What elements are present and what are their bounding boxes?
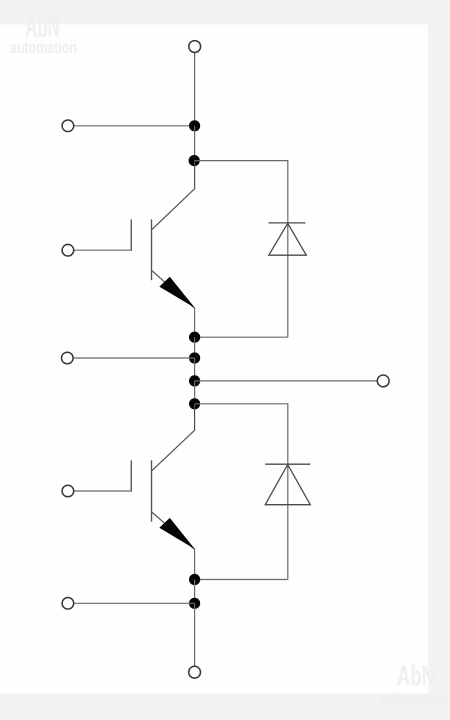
transistor Q1 body bar [151, 219, 153, 280]
wire: left terminal 3 to node M2 [73, 357, 195, 359]
wire: diode D2 anode down to node N [195, 579, 288, 581]
transistor Q2 gate bar [130, 460, 132, 491]
wire: top terminal to node P [194, 53, 196, 127]
wire: left terminal 1 to node P [74, 125, 195, 127]
node M2 junction [189, 352, 200, 363]
terminal left 1 [62, 120, 74, 132]
emitter lead Q2 [152, 512, 195, 549]
svg-text:AbN: AbN [397, 660, 435, 692]
wire: emitter Q2 down to node N [194, 549, 196, 579]
wire: rail M1 to M2 [194, 337, 196, 358]
terminal right (output) [377, 375, 389, 387]
transistor Q2 body bar [151, 460, 153, 521]
node M3 junction [189, 375, 200, 386]
svg-text:automation: automation [10, 39, 77, 57]
wire: collector lead Q1 [152, 161, 195, 230]
wire: left terminal 5 to node N2 [74, 602, 195, 604]
wire: junction to diode D1 branch (top) [194, 161, 288, 338]
wire: node M3 to right terminal [195, 380, 377, 382]
wire: emitter Q1 down to node M [194, 308, 196, 337]
wire: rail M3 to M4 [194, 381, 196, 404]
node P junction [189, 120, 200, 131]
diode D1 [269, 223, 307, 255]
svg-text:automation: automation [381, 691, 448, 709]
transistor Q1 gate bar [130, 219, 132, 250]
wire: node N2 down to bottom terminal [194, 603, 196, 666]
emitter arrow Q2 [159, 518, 195, 549]
node N1 junction [189, 574, 200, 585]
emitter lead Q1 [152, 271, 195, 308]
wire: diode D1 anode down to node M [195, 336, 288, 338]
node M4 junction [189, 398, 200, 409]
wire: node P down to node D1 cathode [194, 126, 196, 161]
watermark AbN (bottom-right) [381, 660, 448, 709]
node D1-top junction [189, 155, 200, 166]
diode D2 [265, 464, 310, 505]
node M1 junction [189, 332, 200, 343]
terminal left 3 [62, 352, 74, 364]
terminal left 5 [62, 598, 74, 610]
terminal top (collector C1) [189, 41, 201, 53]
terminal bottom (emitter E2) [189, 666, 201, 678]
node N2 junction [189, 598, 200, 609]
emitter arrow Q1 [159, 277, 195, 308]
wire: rail M2 to M3 [194, 358, 196, 381]
wire: junction M4 to diode D2 branch (top) [195, 404, 288, 580]
wire: gate G2 [74, 490, 132, 492]
terminal left 2 (gate G1) [62, 244, 74, 256]
watermark AbN (top-left) [10, 7, 77, 58]
terminal left 4 (gate G2) [62, 485, 74, 497]
wire: collector lead Q2 [152, 404, 195, 471]
wire: gate G1 [74, 249, 132, 251]
wire: rail N1 to N2 [194, 580, 196, 604]
